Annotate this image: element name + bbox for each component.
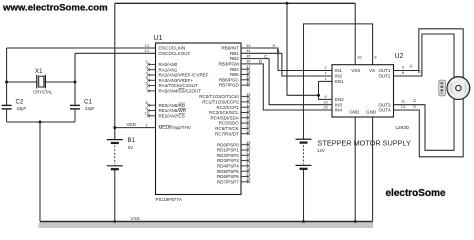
U1 pin 6 RA4/T0CKI/C1OUT (149, 85, 156, 87)
svg-text:RD6/PSP6: RD6/PSP6 (217, 174, 239, 179)
svg-text:21: 21 (246, 150, 251, 155)
wire to EN2 pin (319, 98, 333, 100)
svg-text:36: 36 (246, 59, 251, 64)
wire VDD to EN1/EN2 (287, 3, 319, 95)
wire B1 minus to VSS rail (114, 169, 116, 221)
IC U1 PIC16F877A body (156, 43, 242, 195)
svg-text:RD0/PSP0: RD0/PSP0 (217, 142, 239, 147)
svg-text:D: D (413, 103, 416, 108)
svg-text:RC3/SCK/SCL: RC3/SCK/SCL (209, 110, 239, 115)
stepper motor terminal block (439, 80, 446, 96)
svg-text:X1: X1 (35, 68, 43, 75)
svg-text:RE0/AN5/RD: RE0/AN5/RD (159, 103, 186, 108)
svg-text:40: 40 (246, 80, 251, 85)
svg-text:RC2/CCP1: RC2/CCP1 (217, 105, 240, 110)
svg-text:OUT1: OUT1 (378, 68, 390, 73)
wire net B OUT2 to motor top-left (394, 34, 455, 80)
svg-text:15: 15 (323, 105, 328, 110)
svg-text:10: 10 (323, 99, 328, 104)
svg-text:23: 23 (246, 113, 251, 118)
svg-text:18: 18 (246, 107, 251, 112)
svg-text:C1: C1 (84, 99, 92, 106)
svg-text:RD3/PSP3: RD3/PSP3 (217, 158, 239, 163)
capacitor C1 (70, 104, 80, 106)
wire to EN1 pin (319, 80, 333, 82)
U1 pin 9 RE1/AN6/WR (149, 110, 156, 112)
svg-text:D: D (259, 59, 262, 64)
junction EN tie (317, 94, 320, 97)
svg-text:RB7/PGD: RB7/PGD (219, 83, 240, 88)
svg-text:38: 38 (246, 69, 251, 74)
stepper motor body (447, 77, 470, 100)
U1 pin 18 RC3/SCK/SCL (241, 112, 249, 114)
U1 pin 39 RB6/PGC (241, 79, 249, 81)
svg-text:electroSome: electroSome (386, 188, 446, 199)
svg-text:RC5/SDO: RC5/SDO (219, 121, 240, 126)
svg-text:U1: U1 (154, 35, 163, 42)
crystal X1 (36, 75, 38, 89)
svg-text:RE1/AN6/WR: RE1/AN6/WR (159, 108, 187, 113)
battery 12V stepper supply (296, 138, 312, 140)
wire VDD top rail (115, 2, 355, 4)
svg-text:OUT2: OUT2 (378, 74, 390, 79)
svg-text:17: 17 (246, 102, 251, 107)
U1 pin 38 RB5 (241, 74, 249, 76)
U1 pin 40 RB7/PGD (241, 84, 249, 86)
U1 pin 15 RC0/T1OSO/T1CKI (241, 96, 249, 98)
svg-text:39: 39 (246, 75, 251, 80)
wire cap ground down to VSS rail (39, 122, 41, 222)
svg-text:OSC2/CLKOUT: OSC2/CLKOUT (159, 51, 191, 56)
wire EN1-EN2 tie vertical (318, 81, 320, 99)
svg-text:RB0/INT: RB0/INT (222, 46, 240, 51)
svg-text:RD7/PSP7: RD7/PSP7 (217, 179, 239, 184)
U1 pin 19 RD0/PSP0 (241, 144, 249, 146)
svg-text:GND: GND (349, 109, 360, 114)
svg-text:RA1/AN1: RA1/AN1 (159, 67, 178, 72)
U1 pin 24 RC5/SDO (241, 122, 249, 124)
svg-text:22pF: 22pF (85, 106, 95, 111)
svg-text:25: 25 (246, 123, 251, 128)
svg-text:RB4: RB4 (230, 67, 239, 72)
svg-text:RB1: RB1 (230, 51, 239, 56)
svg-text:RC7/RX/DT: RC7/RX/DT (215, 131, 239, 136)
svg-text:OUT4: OUT4 (378, 108, 390, 113)
svg-text:RC1/T1OSI/CCP2: RC1/T1OSI/CCP2 (202, 100, 239, 105)
U1 pin 29 RD6/PSP6 (241, 176, 249, 178)
svg-text:VSS: VSS (351, 68, 360, 73)
svg-text:13: 13 (144, 43, 149, 48)
svg-text:B: B (418, 69, 421, 74)
wire C2/C1 ground bus (7, 121, 75, 123)
junction 12V/VSS rail (302, 220, 305, 223)
svg-text:EN1: EN1 (335, 79, 344, 84)
wire net D OUT4 to motor bottom-right (394, 97, 464, 157)
svg-text:IN3: IN3 (335, 102, 343, 107)
battery B1 5V (107, 139, 123, 141)
svg-text:EN2: EN2 (335, 97, 344, 102)
svg-text:www.electroSome.com: www.electroSome.com (2, 3, 108, 14)
svg-text:RC6/TX/CK: RC6/TX/CK (215, 126, 239, 131)
junction VDD/MCLR (113, 126, 116, 129)
svg-text:12V: 12V (317, 148, 325, 153)
svg-text:22pF: 22pF (17, 106, 27, 111)
junction crystal-right/C1 (74, 81, 77, 84)
svg-text:PIC16F877A: PIC16F877A (156, 197, 183, 202)
svg-text:RE2/AN7/CS: RE2/AN7/CS (159, 113, 185, 118)
wire OSC1 pin13 to crystal-left net (7, 47, 156, 49)
svg-text:RD2/PSP2: RD2/PSP2 (217, 153, 239, 158)
svg-text:30: 30 (246, 177, 251, 182)
U1 pin 8 RE0/AN5/RD (149, 104, 156, 106)
svg-text:RB2: RB2 (230, 56, 239, 61)
wire crystal left leg (7, 81, 38, 83)
svg-text:RA4/T0CKI/C1OUT: RA4/T0CKI/C1OUT (159, 83, 199, 88)
U1 pin 25 RC6/TX/CK (241, 127, 249, 129)
wire left vertical crystal-left to C2 (6, 48, 8, 105)
wire VDD to MCLR pin1 (115, 127, 156, 129)
U1 pin 23 RC4/SDI/SDA (241, 117, 249, 119)
wire 12V battery plus to VS pin8 (304, 24, 373, 139)
U1 pin 3 RA1/AN1 (149, 69, 156, 71)
capacitor C2 (2, 104, 12, 106)
svg-text:15: 15 (246, 91, 251, 96)
svg-text:RA5/AN4/SS/C2OUT: RA5/AN4/SS/C2OUT (159, 89, 202, 94)
svg-text:27: 27 (246, 161, 251, 166)
wire U2 GND1 to VSS rail (354, 117, 356, 222)
svg-text:GND: GND (366, 109, 377, 114)
wire VDD rail down to U2 VSS pin16 (354, 3, 356, 64)
wire net C OUT3 to motor bottom-left (394, 97, 455, 150)
svg-text:RA2/AN2/VREF-/CVREF: RA2/AN2/VREF-/CVREF (159, 73, 209, 78)
U1 pin 5 RA3/AN3/VREF+ (149, 79, 156, 81)
svg-text:28: 28 (246, 166, 251, 171)
svg-text:14: 14 (144, 48, 149, 53)
svg-text:OSC1/CLKIN: OSC1/CLKIN (159, 46, 186, 51)
svg-text:26: 26 (246, 129, 251, 134)
wire OSC2 pin14 to crystal-right net (75, 52, 156, 54)
svg-text:RB6/PGC: RB6/PGC (219, 77, 240, 82)
svg-text:IN4: IN4 (335, 108, 343, 113)
svg-text:A: A (410, 64, 413, 69)
svg-text:34: 34 (246, 48, 251, 53)
svg-text:24: 24 (246, 118, 251, 123)
svg-text:22: 22 (246, 155, 251, 160)
svg-text:STEPPER MOTOR SUPPLY: STEPPER MOTOR SUPPLY (318, 138, 412, 147)
wire net A RB0 to IN1 (241, 48, 332, 71)
svg-text:RA0/AN0: RA0/AN0 (159, 62, 178, 67)
U1 pin 30 RD7/PSP7 (241, 181, 249, 183)
svg-text:RD4/PSP4: RD4/PSP4 (217, 164, 239, 169)
svg-text:RC4/SDI/SDA: RC4/SDI/SDA (211, 115, 239, 120)
svg-text:B1: B1 (128, 137, 136, 144)
U1 pin 10 RE2/AN7/CS (149, 115, 156, 117)
U1 pin 7 RA5/AN4/SS/C2OUT (149, 90, 156, 92)
junction B1/VSS rail (113, 220, 116, 223)
svg-text:5V: 5V (128, 145, 133, 150)
wire U2 GND2 to VSS rail (372, 117, 374, 222)
svg-text:C: C (264, 54, 267, 59)
wire 12V minus to VSS rail (303, 169, 305, 222)
U1 pin 20 RD1/PSP1 (241, 149, 249, 151)
svg-text:L293D: L293D (396, 125, 410, 130)
svg-text:29: 29 (246, 171, 251, 176)
wire B1 plus vertical (114, 3, 116, 139)
svg-text:20: 20 (246, 145, 251, 150)
wire right vertical crystal-right to C1 (74, 53, 76, 105)
svg-text:RC0/T1OSO/T1CKI: RC0/T1OSO/T1CKI (199, 94, 239, 99)
U1 pin 4 RA2/AN2/VREF-/CVREF (149, 74, 156, 76)
svg-text:RB5: RB5 (230, 72, 239, 77)
U1 pin 17 RC2/CCP1 (241, 106, 249, 108)
wire crystal right leg (45, 81, 75, 83)
svg-text:IN2: IN2 (335, 74, 343, 79)
U1 pin 37 RB4 (241, 68, 249, 70)
VSS rail shadow band (39, 223, 374, 228)
svg-text:C2: C2 (16, 99, 24, 106)
svg-text:OUT3: OUT3 (378, 102, 390, 107)
wire net A OUT1 to motor top-right (394, 29, 464, 80)
IC U2 L293D body (332, 65, 394, 117)
wire net C RB2 to IN3 (241, 59, 332, 105)
svg-text:U2: U2 (395, 53, 404, 60)
junction cap ground mid (39, 121, 42, 124)
U1 pin 27 RD4/PSP4 (241, 165, 249, 167)
svg-text:33: 33 (246, 43, 251, 48)
svg-text:VSS: VSS (131, 216, 140, 221)
svg-text:16: 16 (246, 97, 251, 102)
junction VDD rail / EN drop (286, 2, 289, 5)
wire net B RB1 to IN2 (241, 53, 332, 76)
U1 pin 26 RC7/RX/DT (241, 133, 249, 135)
U1 pin 22 RD3/PSP3 (241, 160, 249, 162)
junction GND1/VSS rail (354, 220, 357, 223)
wire net D RB3 to IN4 (241, 64, 332, 110)
svg-text:RD5/PSP5: RD5/PSP5 (217, 169, 239, 174)
svg-text:RD1/PSP1: RD1/PSP1 (217, 148, 239, 153)
U1 pin 16 RC1/T1OSI/CCP2 (241, 101, 249, 103)
svg-text:RB3/PGM: RB3/PGM (219, 62, 240, 67)
svg-text:IN1: IN1 (335, 68, 343, 73)
svg-text:37: 37 (246, 64, 251, 69)
svg-text:35: 35 (246, 53, 251, 58)
svg-text:RA3/AN3/VREF+: RA3/AN3/VREF+ (159, 78, 194, 83)
svg-text:19: 19 (246, 140, 251, 145)
U1 pin 2 RA0/AN0 (149, 63, 156, 65)
U1 pin 28 RD5/PSP5 (241, 170, 249, 172)
svg-text:A: A (273, 43, 276, 48)
svg-text:MCLR/Vpp/THV: MCLR/Vpp/THV (159, 125, 191, 130)
svg-text:VDD: VDD (127, 122, 136, 127)
svg-text:C: C (413, 98, 416, 103)
svg-text:CRYSTAL: CRYSTAL (33, 90, 53, 95)
svg-text:10: 10 (144, 111, 149, 116)
junction crystal-left/C2 (5, 81, 8, 84)
svg-text:B: B (277, 48, 280, 53)
wire VSS ground rail (40, 221, 373, 223)
svg-text:VS: VS (369, 68, 375, 73)
svg-text:16: 16 (357, 54, 362, 59)
U1 pin 21 RD2/PSP2 (241, 154, 249, 156)
